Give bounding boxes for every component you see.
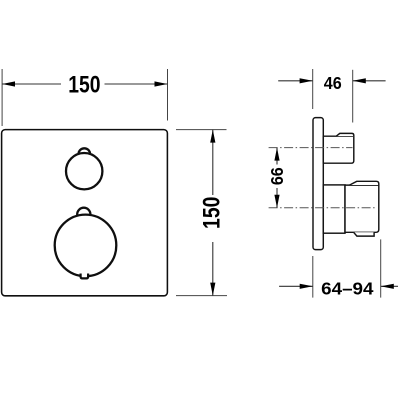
svg-text:66: 66 [267,167,287,185]
svg-text:46: 46 [324,73,342,93]
front plate (150x150 escutcheon, front view) [2,130,168,296]
depth dimension 46: right extension line [352,70,354,123]
projection dimension 64-94: left extension line [312,256,314,298]
width dimension 150: left extension line [1,69,3,126]
width dimension 150: right extension line [167,69,169,121]
large knob side view bottom tab [354,232,375,236]
width dimension 150: dimension line with arrows [2,81,167,86]
spacing dimension 66: dimension line with arrows [274,148,279,208]
large knob bottom tab (front view) [81,274,89,279]
depth dimension 46: left extension line [312,69,314,109]
svg-text:150: 150 [198,197,225,229]
side plate (wall escutcheon, side view) [313,118,323,250]
small knob side view body [323,136,354,163]
height dimension 150: label (rotated) [198,197,225,229]
projection dimension 64-94: right extension line [380,239,382,297]
height dimension 150: dimension line with arrows [210,130,215,296]
svg-text:64–94: 64–94 [321,278,374,298]
projection dimension 64-94: arrows [279,284,398,289]
small knob (front view) [66,153,102,189]
large knob (front view) [55,215,117,277]
small knob indicator bump (front view) [79,148,91,160]
large knob indicator bump (front view) [77,208,90,221]
height dimension 150: bottom extension tick [176,295,227,297]
projection dimension 64-94: label [321,278,374,298]
depth dimension 46: arrows [278,78,385,83]
small knob centerline [269,147,353,149]
spacing dimension 66: label (rotated) [267,167,287,185]
large knob side view inner cylinder [323,185,345,233]
width dimension 150: label [68,71,100,98]
depth dimension 46: label [324,73,342,93]
height dimension 150: top extension tick [176,129,227,131]
svg-text:150: 150 [68,71,100,98]
large knob side view indicator bump [350,181,379,185]
large knob centerline [269,207,376,209]
large knob side view grip [345,185,379,232]
small knob side view indicator bump [336,133,353,136]
